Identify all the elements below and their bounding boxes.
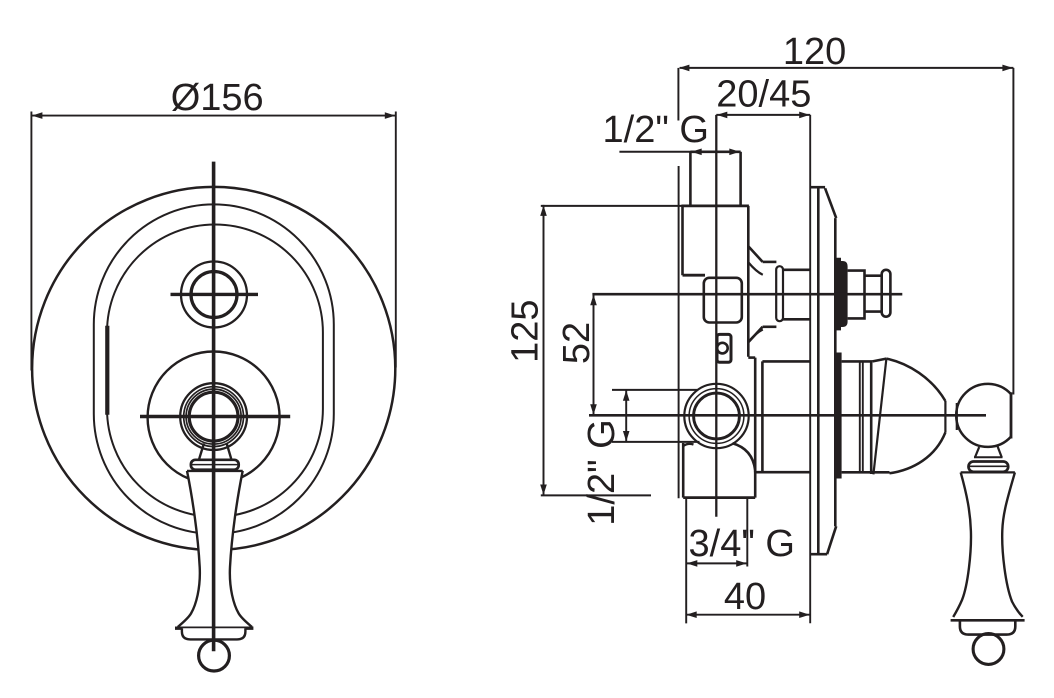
dim 120 extension left upper [677, 68, 679, 121]
stack cyl1 top edge [763, 261, 777, 264]
dim 52 arrow down [590, 404, 597, 415]
elbow top-left fillet [683, 444, 693, 446]
body vertical centerline [715, 115, 717, 517]
svg-text:Ø156: Ø156 [171, 77, 264, 119]
dim 1/2G left arrow down [623, 431, 630, 442]
handle ring edge [870, 361, 873, 474]
lever collar [191, 460, 239, 470]
upper body right edge [747, 206, 750, 357]
lever cup [182, 628, 246, 639]
dim 3/4G line [686, 562, 747, 564]
housing step [748, 356, 755, 359]
dim 40 arrow left [686, 611, 697, 618]
dim 20/45 arrow right [799, 112, 810, 119]
dim 1/2G top arrow left [691, 149, 702, 156]
dim 52 arrow up [590, 295, 597, 306]
handle cylA bottom edge [755, 471, 810, 474]
svg-text:3/4" G: 3/4" G [689, 523, 795, 565]
lever ball [199, 640, 230, 671]
dim 20/45 line [716, 114, 810, 116]
front plate outer circle [32, 187, 395, 550]
stack cyl2 bottom edge [783, 318, 810, 321]
front vertical centerline [212, 162, 216, 652]
handle cylB top edge [842, 360, 873, 363]
svg-text:120: 120 [783, 31, 846, 73]
lever body left side [178, 471, 200, 627]
adjuster circle [717, 343, 728, 354]
dim 125 arrow up [540, 205, 547, 216]
diverter knob inner circle [191, 272, 237, 318]
svg-text:1/2" G: 1/2" G [581, 419, 623, 525]
front plate outer oval [94, 204, 334, 534]
handle ball side [956, 384, 1011, 447]
diverter cyl4 bottom edge [865, 310, 882, 313]
housing front edge [754, 358, 757, 473]
side collar [969, 462, 1009, 472]
svg-text:125: 125 [505, 299, 547, 362]
dim Ø156 arrow left [32, 112, 43, 119]
lever neck left [199, 444, 204, 460]
dim 52 line [593, 294, 595, 415]
handle ball flat face [1010, 392, 1013, 438]
dim 3/4G arrow right [736, 560, 747, 567]
outlet circle outer [684, 384, 748, 448]
handle cylB right edge b [862, 361, 864, 472]
dim 3/4G ext left [685, 499, 687, 623]
cone top arc [886, 359, 945, 401]
dim Ø156 line [31, 115, 395, 117]
inlet pipe right edge [739, 152, 742, 206]
dim 1/2G left ext top [612, 389, 698, 391]
dim 120 extension left lower [678, 166, 680, 498]
handle escutcheon circle [148, 352, 280, 484]
adjuster square [717, 334, 731, 362]
lever neck right [227, 444, 232, 460]
lever body top edge [187, 470, 243, 472]
dim 120 line [680, 67, 1014, 69]
body top edge [681, 204, 749, 207]
side lever bottom edge [951, 619, 1025, 622]
stack cyl1 bottom edge [763, 325, 777, 328]
handle centerline [589, 414, 986, 417]
handle hub ring 4 thick [189, 392, 238, 441]
lever body fill [178, 471, 252, 627]
side lever ball [973, 634, 1004, 665]
diverter centerline [592, 293, 902, 296]
inlet pipe top edge [690, 151, 740, 154]
plate top chamfer [825, 188, 836, 218]
handle hub ring 2 [184, 387, 244, 447]
handle cylA top edge [762, 360, 810, 363]
handle sleeve black [835, 353, 842, 479]
handle crosshair [140, 415, 290, 418]
cone top tick [873, 359, 887, 362]
side lever right side [1002, 472, 1023, 616]
dim 1/2G top arrow right [729, 149, 740, 156]
lever bottom edge [175, 627, 253, 630]
svg-text:52: 52 [556, 322, 598, 364]
cone neck right [956, 403, 958, 430]
side collar upper tier [974, 456, 1003, 458]
stack fillet top [749, 263, 763, 275]
svg-text:40: 40 [724, 576, 766, 618]
handle hub ring 1 [180, 383, 247, 450]
lever neck fill [199, 444, 232, 461]
handle hub ring 3 [186, 389, 241, 444]
stack rib pill [776, 266, 783, 321]
dim 40 line [686, 614, 811, 616]
diverter cyl4 top edge [865, 274, 882, 277]
upper body left step [683, 274, 706, 277]
dim 1/2G left ext bottom [612, 441, 700, 443]
diverter end pill [882, 270, 891, 317]
plate back edge [817, 187, 820, 554]
svg-text:20/45: 20/45 [716, 73, 811, 115]
dim Ø156 extension line right [395, 112, 397, 368]
stack cyl2 top edge [783, 268, 810, 271]
dim 120 arrow right [1002, 65, 1013, 72]
outlet circle inner thick [694, 393, 740, 439]
side lever cup [960, 620, 1015, 634]
dim 3/4G arrow left [687, 560, 698, 567]
stack fillet bottom [749, 330, 763, 342]
plate bottom chamfer [827, 526, 836, 554]
side lever top edge [961, 471, 1015, 473]
handle cylA left edge [761, 361, 764, 472]
diverter knob outer circle [181, 262, 247, 328]
dim 1/2G left arrow up [623, 390, 630, 401]
elbow right curve [733, 443, 756, 497]
ball neck right [998, 446, 1002, 457]
dim 1/2G top line [619, 151, 740, 153]
dim 20/45 arrow left [717, 112, 728, 119]
diverter sleeve black [834, 258, 848, 331]
handle cylB right edge a [859, 361, 861, 472]
svg-text:1/2" G: 1/2" G [603, 109, 709, 151]
cone bottom arc [890, 432, 946, 473]
wall extension line [809, 115, 811, 623]
bonnet nut [704, 278, 742, 323]
dim 1/2G left vline [625, 390, 627, 442]
side lever left side [953, 472, 971, 617]
dim 125 line [543, 205, 545, 496]
body top edge with 125 extension [541, 205, 683, 207]
outlet circle mid [689, 389, 744, 444]
dim Ø156 arrow right [385, 112, 396, 119]
dim 125 bottom extension [541, 494, 651, 496]
stack chamfer top [748, 246, 762, 262]
dim 3/4G ext right [746, 499, 748, 567]
ball neck left [975, 447, 979, 457]
lever body right side [230, 471, 252, 627]
plate front edge [834, 218, 837, 526]
front plate inner oval [107, 225, 323, 517]
dim 125 arrow down [540, 485, 547, 496]
stack chamfer bottom [748, 327, 762, 343]
dim 120 extension right [1012, 68, 1014, 395]
elbow left edge [682, 443, 685, 498]
plate bottom edge [810, 553, 827, 556]
cone neck left [944, 401, 946, 432]
elbow bottom edge [683, 496, 755, 499]
lever collar mid line [192, 464, 239, 466]
upper body left edge [681, 206, 684, 275]
cone left face [873, 359, 886, 475]
dim Ø156 extension line left [30, 112, 32, 371]
dim 40 arrow right [799, 611, 810, 618]
diverter cyl3 [848, 271, 865, 319]
handle cylB bottom edge [842, 471, 890, 474]
inlet pipe left edge [689, 152, 692, 206]
dim 120 arrow left [679, 65, 690, 72]
diverter knob crosshair [171, 293, 259, 296]
side collar mid line [970, 465, 1008, 467]
plate top edge [810, 186, 825, 189]
inner oval left thick edge [105, 326, 109, 415]
